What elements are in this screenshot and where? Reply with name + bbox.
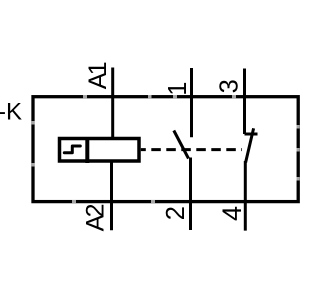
relay outline box -K bbox=[33, 97, 298, 202]
contact 3-4 NC stop bar bbox=[245, 133, 258, 136]
coil compartment divider bbox=[85, 137, 89, 163]
svg-text:A1: A1 bbox=[84, 62, 112, 89]
wire 4 terminal bbox=[244, 161, 247, 231]
svg-text:4: 4 bbox=[217, 206, 247, 221]
latching step symbol bbox=[64, 146, 80, 153]
contact 1-2 NO blade bbox=[174, 131, 189, 159]
svg-text:A2: A2 bbox=[81, 204, 109, 231]
wire A2 terminal bbox=[110, 161, 113, 230]
svg-text:1: 1 bbox=[164, 82, 192, 96]
svg-text:3: 3 bbox=[216, 79, 244, 93]
contact 3-4 NC blade bbox=[246, 128, 254, 162]
svg-text:2: 2 bbox=[162, 206, 190, 220]
svg-text:-K: -K bbox=[0, 99, 22, 126]
wire 2 terminal bbox=[189, 158, 192, 231]
dashed mechanical link bbox=[141, 148, 242, 151]
wire 3 terminal bbox=[243, 69, 246, 135]
wire 1 terminal bbox=[190, 68, 193, 137]
wire A1 terminal bbox=[111, 68, 114, 139]
coil K (latching relay coil) bbox=[60, 139, 140, 162]
